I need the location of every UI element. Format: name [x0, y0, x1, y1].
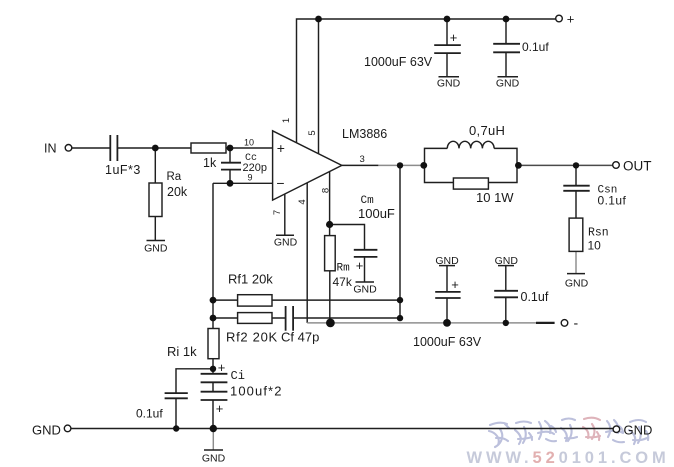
svg-text:20k: 20k	[167, 185, 188, 199]
svg-text:IN: IN	[44, 142, 57, 156]
svg-text:1k: 1k	[203, 156, 217, 170]
svg-text:+: +	[450, 30, 458, 45]
svg-text:8: 8	[320, 188, 331, 193]
svg-text:100uF: 100uF	[358, 206, 395, 221]
svg-text:Rf1 20k: Rf1 20k	[228, 272, 273, 287]
svg-text:GND: GND	[32, 423, 61, 438]
svg-text:GND: GND	[144, 243, 168, 255]
svg-text:Rm: Rm	[337, 263, 351, 275]
svg-text:GND: GND	[624, 423, 653, 438]
svg-text:5: 5	[307, 130, 318, 135]
svg-text:10: 10	[244, 138, 254, 148]
svg-text:1: 1	[281, 118, 292, 123]
svg-text:10 1W: 10 1W	[476, 190, 514, 205]
svg-text:+: +	[567, 12, 575, 27]
svg-text:GND: GND	[435, 255, 459, 267]
svg-text:0.1uf: 0.1uf	[521, 290, 549, 304]
svg-text:+: +	[277, 140, 285, 156]
svg-text:+: +	[216, 401, 224, 416]
svg-text:GND: GND	[495, 255, 519, 267]
svg-text:−: −	[276, 175, 284, 191]
svg-text:LM3886: LM3886	[342, 127, 387, 141]
svg-text:4: 4	[297, 199, 308, 204]
svg-text:WWW.520101.COM: WWW.520101.COM	[467, 449, 670, 467]
svg-text:0.1uf: 0.1uf	[136, 407, 163, 421]
svg-text:1000uF 63V: 1000uF 63V	[364, 55, 433, 69]
svg-text:47k: 47k	[333, 275, 353, 289]
svg-text:+: +	[218, 360, 226, 375]
svg-text:Ri 1k: Ri 1k	[167, 344, 197, 359]
svg-text:-: -	[573, 315, 578, 331]
svg-text:9: 9	[248, 173, 253, 183]
svg-text:0.1uf: 0.1uf	[598, 194, 627, 208]
svg-text:GND: GND	[353, 284, 377, 296]
svg-text:GND: GND	[202, 453, 226, 465]
svg-text:Rf2 20K: Rf2 20K	[226, 330, 278, 345]
svg-text:GND: GND	[565, 278, 589, 290]
svg-text:0.1uf: 0.1uf	[522, 40, 549, 54]
svg-text:100uf*2: 100uf*2	[230, 384, 283, 399]
svg-text:+: +	[356, 258, 364, 273]
svg-text:10: 10	[588, 239, 602, 253]
svg-text:GND: GND	[437, 78, 461, 90]
svg-text:220p: 220p	[243, 162, 267, 174]
svg-text:7: 7	[272, 210, 283, 215]
svg-text:GND: GND	[496, 78, 520, 90]
svg-text:+: +	[451, 277, 459, 292]
svg-text:Ci: Ci	[231, 369, 245, 383]
svg-text:Ra: Ra	[167, 171, 182, 183]
svg-text:Cf 47p: Cf 47p	[281, 330, 319, 345]
svg-text:OUT: OUT	[623, 159, 652, 174]
svg-text:1000uF 63V: 1000uF 63V	[413, 335, 482, 349]
svg-text:3: 3	[360, 154, 365, 165]
svg-text:GND: GND	[274, 237, 298, 249]
svg-text:0,7uH: 0,7uH	[469, 123, 505, 138]
svg-text:1uF*3: 1uF*3	[105, 163, 141, 177]
